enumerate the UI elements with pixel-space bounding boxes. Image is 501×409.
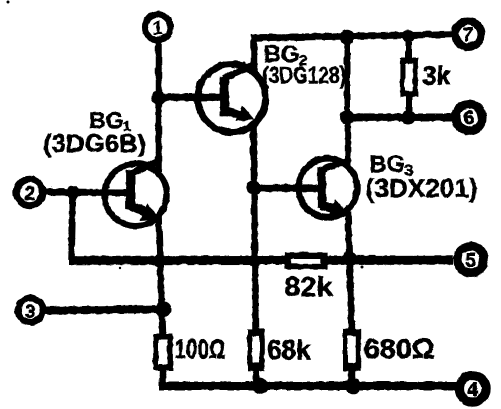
node: feedback wire x rail C: [341, 250, 356, 265]
svg-text:7: 7: [462, 25, 473, 46]
wire: rail A below BG1 down to 100R: [158, 213, 162, 334]
node: bottom wire x 68k: [252, 377, 268, 393]
wire: terminal 3 to rail A: [45, 309, 163, 311]
node: T6 wire x rail C: [339, 109, 354, 124]
svg-text:5: 5: [465, 250, 476, 271]
wire: 680R bottom lead: [348, 369, 355, 384]
wire: vertical from T2 junction down to feedback wire: [71, 192, 73, 260]
wire: terminal 2 to BG1 base: [44, 188, 127, 196]
wire: 100R bottom lead: [159, 369, 166, 384]
svg-text:82k: 82k: [284, 271, 333, 302]
wire: BG3 base wire: [253, 184, 318, 192]
svg-text:6: 6: [463, 108, 474, 129]
svg-text:(3DG128): (3DG128): [262, 62, 345, 89]
transistor Q BG3: [298, 158, 357, 217]
node: feedback wire x rail A: [152, 254, 165, 267]
svg-text:2: 2: [24, 183, 35, 204]
node: T2 wire junction: [66, 185, 79, 198]
wire: feedback horizontal wire to terminal 5: [68, 255, 452, 265]
wire: top horizontal wire to terminal 7: [251, 34, 453, 38]
wire: 3k top lead: [405, 33, 411, 59]
resistor 82k: [284, 252, 326, 269]
wire: rail B below BG2 down to 68k: [253, 124, 255, 330]
terminal 7: [455, 21, 481, 47]
node: T6 wire x 3k lead: [401, 110, 415, 124]
node: junction rail A / BG2 base wire: [151, 90, 165, 104]
node: T3 wire x rail A: [155, 301, 171, 317]
transistor Q BG1: [104, 160, 166, 226]
wire: rail C from top wire to terminal-6 wire: [344, 33, 350, 120]
wire: terminal 1 stem down to BG1 collector (rail A upper): [155, 40, 162, 171]
resistor 68k: [247, 328, 264, 370]
svg-text:3: 3: [25, 301, 35, 321]
node: feedback wire x rail B: [248, 254, 261, 267]
wire: terminal-6 horizontal wire: [347, 113, 453, 121]
label BG2: [263, 41, 307, 70]
svg-text:100Ω: 100Ω: [174, 334, 225, 364]
wire: rail B above BG2 (to top wire corner): [250, 34, 257, 71]
terminal 6: [455, 103, 482, 130]
svg-text:4: 4: [467, 379, 478, 400]
svg-text:3k: 3k: [422, 60, 451, 90]
svg-text:(3DX201): (3DX201): [365, 173, 477, 203]
node: bottom wire x 680R: [345, 377, 361, 393]
label BG3: [369, 151, 413, 180]
terminal 1: [144, 14, 170, 40]
transistor Q BG2: [197, 63, 265, 132]
node: top wire x 3k lead: [401, 29, 414, 42]
terminal 4: [459, 375, 486, 402]
wire: 68k bottom lead: [252, 369, 259, 384]
terminal 5: [457, 245, 484, 272]
node: junction rail B / BG3 base wire: [246, 180, 261, 195]
svg-text:1: 1: [151, 17, 162, 39]
svg-text:(3DG6B): (3DG6B): [42, 129, 145, 157]
terminal 3: [18, 297, 43, 322]
svg-text:680Ω: 680Ω: [363, 333, 434, 364]
wire: rail C between T6 wire and BG3: [344, 117, 351, 167]
resistor 680R: [342, 328, 360, 370]
svg-text:68k: 68k: [267, 334, 311, 365]
terminal 2: [16, 178, 42, 204]
node: top wire x rail C: [339, 29, 354, 44]
wire: rail C below BG3 down to 680R: [348, 211, 352, 330]
resistor 3k: [399, 57, 417, 96]
label BG1: [89, 107, 131, 135]
wire: BG2 base wire: [158, 93, 222, 101]
resistor 100R: [153, 333, 173, 370]
wire: 3k bottom lead: [406, 95, 412, 120]
wire: bottom horizontal wire to terminal 4: [158, 381, 456, 390]
